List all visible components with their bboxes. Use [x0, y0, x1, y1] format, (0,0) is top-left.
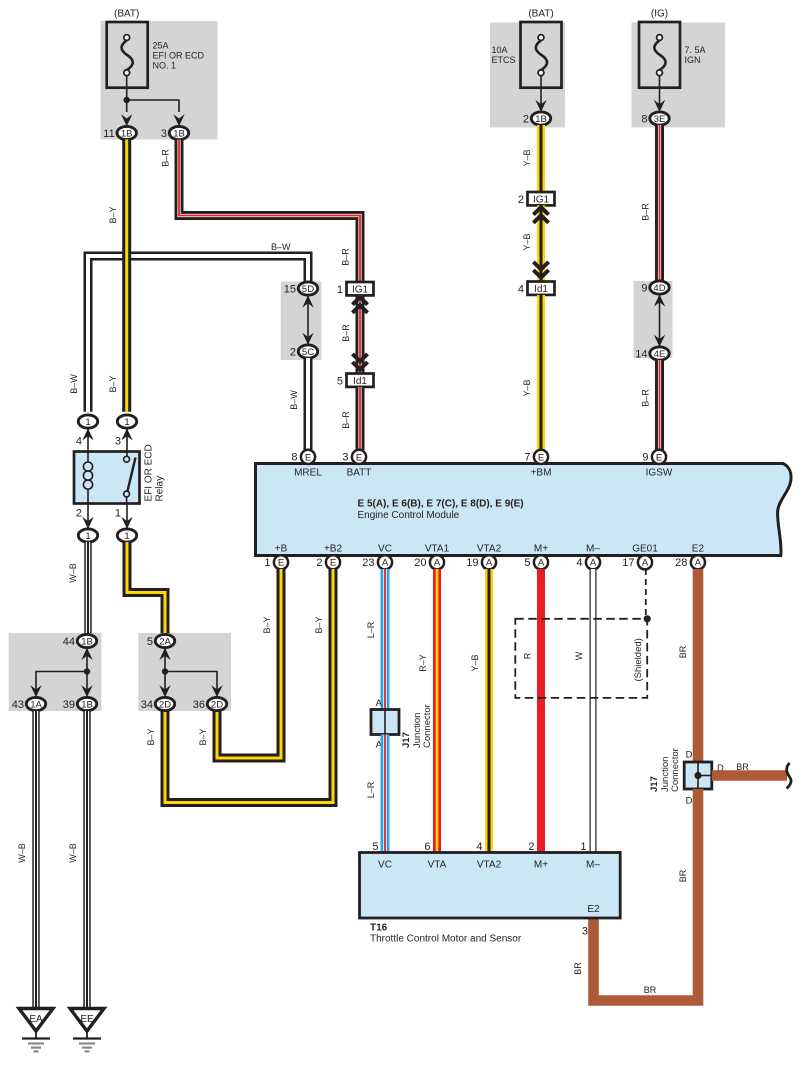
svg-text:A: A: [434, 558, 441, 569]
connector 9 4D: [650, 281, 669, 294]
svg-text:W–B: W–B: [17, 843, 27, 863]
fuse 25A EFI OR ECD NO.1: [107, 22, 148, 88]
svg-text:NO. 1: NO. 1: [153, 60, 177, 70]
wire B-Y +B2 to 34 2D: [165, 569, 333, 803]
svg-text:D: D: [686, 750, 693, 761]
arrow into connector 3 1B: [173, 114, 184, 126]
junction dot: [124, 97, 130, 103]
branch wires: [36, 672, 87, 691]
svg-text:4: 4: [476, 841, 482, 853]
svg-text:Y–B: Y–B: [522, 233, 532, 250]
svg-text:1B: 1B: [81, 636, 93, 647]
svg-text:VTA: VTA: [428, 860, 447, 871]
svg-text:2: 2: [518, 194, 524, 206]
svg-text:+BM: +BM: [531, 468, 552, 479]
svg-text:W: W: [574, 651, 584, 660]
svg-text:39: 39: [63, 699, 75, 711]
svg-text:W–B: W–B: [68, 563, 78, 583]
relay bottom pins: [87, 504, 89, 529]
svg-text:1B: 1B: [535, 114, 547, 125]
connector 43 1A: [26, 697, 45, 710]
svg-text:5: 5: [337, 376, 343, 388]
shield dashed box: [515, 619, 647, 698]
chevrons down above Id1: [352, 354, 367, 370]
svg-text:36: 36: [193, 699, 205, 711]
svg-text:E 5(A), E 6(B), E 7(C), E 8(D): E 5(A), E 6(B), E 7(C), E 8(D), E 9(E): [358, 499, 524, 510]
wire L-R VC lower: [381, 735, 390, 853]
wire R M+: [537, 569, 545, 853]
svg-text:Id1: Id1: [353, 376, 367, 387]
svg-text:B–W: B–W: [271, 242, 291, 252]
svg-text:A: A: [382, 558, 389, 569]
svg-text:B–Y: B–Y: [108, 206, 118, 223]
connector 14 4E: [650, 347, 669, 360]
arrow into connector 11 1B: [121, 114, 132, 126]
arrow up into 5 2A: [164, 647, 166, 672]
svg-text:A: A: [486, 558, 493, 569]
connector 1 (relay pin 4): [78, 415, 97, 428]
ECM pin IGSW: [652, 450, 666, 464]
svg-text:B–Y: B–Y: [108, 375, 118, 392]
svg-text:R–Y: R–Y: [418, 654, 428, 672]
svg-text:B–W: B–W: [289, 390, 299, 410]
wire B-R 4E to IGSW: [655, 360, 664, 450]
wire W-B 39 1B to ground EE: [83, 711, 90, 1009]
svg-text:17: 17: [622, 557, 634, 569]
pass-through line 4D-4E: [659, 294, 661, 347]
chevrons down above Id1 (ETCS): [533, 262, 548, 278]
svg-text:44: 44: [63, 636, 75, 648]
svg-text:BR: BR: [573, 962, 583, 975]
svg-text:E: E: [305, 452, 311, 463]
svg-text:Y–B: Y–B: [522, 379, 532, 396]
arrow into 36 2D: [211, 685, 222, 697]
arrow into 34 2D: [159, 685, 170, 697]
wire Y-B VTA2: [485, 569, 493, 853]
fuse 10A ETCS: [521, 22, 562, 88]
wire Y-B Id1 to +BM: [537, 295, 545, 450]
gray panel 5D/5C: [281, 282, 322, 361]
svg-text:4: 4: [576, 557, 582, 569]
connector 39 1B: [77, 697, 96, 710]
svg-text:1: 1: [85, 417, 90, 428]
svg-text:1: 1: [580, 841, 586, 853]
chevrons up below IG1 (ETCS): [533, 207, 548, 223]
svg-text:E: E: [538, 452, 544, 463]
svg-text:7: 7: [524, 452, 530, 464]
fuse panel (BAT) ETCS: [490, 23, 565, 128]
svg-text:Relay: Relay: [155, 476, 166, 502]
svg-text:E2: E2: [692, 544, 705, 555]
svg-text:1: 1: [337, 284, 343, 296]
arrow into connector 2 1B: [535, 100, 546, 112]
svg-text:R: R: [523, 652, 533, 659]
connector 8 3E: [650, 112, 669, 125]
svg-text:+B: +B: [275, 544, 288, 555]
wire L-R VC upper: [381, 569, 390, 710]
svg-text:23: 23: [362, 557, 374, 569]
svg-text:9: 9: [641, 283, 647, 295]
wire W-B 43 1A to ground EA: [32, 711, 39, 1009]
svg-text:2D: 2D: [211, 699, 223, 710]
svg-text:Y–B: Y–B: [470, 654, 480, 671]
branch wires 2: [165, 672, 217, 691]
svg-text:E: E: [278, 558, 284, 569]
svg-text:1: 1: [85, 531, 90, 542]
wire B-Y from 11 1B down to relay pin 3 connector: [122, 140, 131, 412]
wire BR E2 upper: [693, 569, 704, 762]
svg-text:14: 14: [635, 349, 647, 361]
arrow into relay pin1 connector: [121, 517, 132, 529]
svg-text:8: 8: [641, 114, 647, 126]
svg-text:B–Y: B–Y: [314, 616, 324, 633]
svg-text:A: A: [590, 558, 597, 569]
svg-text:B–R: B–R: [341, 248, 351, 266]
connector 11 1B: [117, 126, 136, 139]
wire W-B relay pin2 to 44 1B: [84, 542, 91, 634]
ground EE: [70, 1009, 104, 1032]
svg-text:VC: VC: [378, 544, 392, 555]
connector 1 (relay pin 3): [117, 415, 136, 428]
relay EFI OR ECD Relay box: [74, 452, 140, 504]
svg-text:E: E: [656, 452, 662, 463]
wire fuse to connector: [540, 76, 542, 106]
connector 1 (relay pin 1): [117, 529, 136, 542]
svg-text:B–R: B–R: [341, 324, 351, 342]
svg-text:2: 2: [290, 347, 296, 359]
arrow into relay pin2 connector: [82, 517, 93, 529]
svg-text:M–: M–: [586, 860, 600, 871]
svg-text:Id1: Id1: [534, 284, 548, 295]
wire fuse to junction: [126, 76, 128, 101]
svg-text:E2: E2: [587, 904, 600, 915]
svg-text:A: A: [538, 558, 545, 569]
svg-text:6: 6: [424, 841, 430, 853]
svg-text:B–W: B–W: [69, 374, 79, 394]
svg-text:GE01: GE01: [632, 544, 658, 555]
svg-text:M–: M–: [586, 544, 600, 555]
svg-text:EFI OR ECD: EFI OR ECD: [153, 51, 205, 61]
svg-text:9: 9: [642, 452, 648, 464]
svg-text:B–Y: B–Y: [146, 728, 156, 745]
svg-text:L–R: L–R: [366, 621, 376, 638]
svg-text:1B: 1B: [121, 128, 133, 139]
arrow into relay pin4 connector: [82, 428, 93, 440]
svg-text:J17: J17: [649, 776, 660, 792]
connector 5 Id1: [347, 374, 374, 387]
svg-text:L–R: L–R: [366, 781, 376, 798]
svg-text:Connector: Connector: [422, 704, 433, 748]
svg-text:1A: 1A: [30, 699, 42, 710]
wire B-R Id1 to BATT: [356, 387, 365, 450]
svg-text:MREL: MREL: [294, 468, 322, 479]
T16 Throttle Control Motor and Sensor box: [360, 853, 621, 919]
svg-text:(BAT): (BAT): [114, 9, 139, 20]
svg-text:A: A: [642, 558, 649, 569]
svg-text:2: 2: [76, 508, 82, 520]
svg-text:4D: 4D: [653, 283, 665, 294]
wire Y-B 1B to IG1: [537, 125, 545, 192]
wire R-Y VTA1: [433, 569, 441, 853]
svg-text:B–Y: B–Y: [198, 728, 208, 745]
arrow up into 5D: [302, 295, 313, 307]
svg-text:EFI OR ECD: EFI OR ECD: [144, 444, 155, 501]
arrow into 39 1B: [81, 685, 92, 697]
svg-text:VTA2: VTA2: [477, 860, 502, 871]
ECM Engine Control Module box: [256, 464, 792, 556]
svg-text:BR: BR: [736, 762, 749, 772]
fuse panel (IG) IGN: [632, 23, 726, 128]
connector 2 1B: [531, 112, 550, 125]
svg-text:3E: 3E: [654, 114, 666, 125]
svg-text:2D: 2D: [159, 699, 171, 710]
svg-text:(BAT): (BAT): [528, 9, 553, 20]
wire GE01 shield drain dashed: [645, 569, 647, 619]
svg-text:1: 1: [115, 508, 121, 520]
line pin4 to relay: [87, 428, 89, 452]
svg-text:A: A: [695, 558, 702, 569]
svg-text:7. 5A: 7. 5A: [685, 45, 706, 55]
arrow up into 44 1B: [86, 647, 88, 672]
wire B-R 3E to 4D: [655, 125, 664, 282]
svg-text:EA: EA: [29, 1014, 43, 1025]
wire fuse to connector: [659, 76, 661, 106]
svg-text:A: A: [376, 698, 383, 709]
connector 36 2D: [207, 697, 226, 710]
arrow into connector 8 3E: [654, 100, 665, 112]
wire W M-: [590, 569, 597, 853]
svg-text:11: 11: [103, 128, 114, 140]
svg-text:+B2: +B2: [324, 544, 343, 555]
svg-text:VTA1: VTA1: [425, 544, 450, 555]
svg-text:3: 3: [582, 926, 588, 938]
svg-text:19: 19: [466, 557, 478, 569]
svg-text:B–R: B–R: [641, 203, 651, 221]
svg-text:IG1: IG1: [533, 195, 550, 206]
wire B-Y relay pin1 to 5 2A: [127, 542, 165, 634]
ECM pin +BM: [534, 450, 548, 464]
svg-text:IGN: IGN: [685, 55, 701, 65]
svg-text:1B: 1B: [173, 128, 185, 139]
svg-text:ETCS: ETCS: [492, 55, 516, 65]
svg-text:(IG): (IG): [651, 9, 668, 20]
junction connector J17 (VC): [371, 710, 399, 735]
svg-text:5D: 5D: [302, 284, 314, 295]
svg-text:2: 2: [316, 557, 322, 569]
svg-text:15: 15: [284, 284, 296, 296]
svg-text:VTA2: VTA2: [477, 544, 502, 555]
svg-text:3: 3: [342, 452, 348, 464]
svg-text:2: 2: [528, 841, 534, 853]
svg-text:1: 1: [124, 531, 129, 542]
junction dot: [84, 668, 90, 674]
wire B-Y +B to 36 2D: [217, 569, 281, 758]
pass-through line 5D-5C: [307, 295, 309, 345]
connector 15 5D: [298, 282, 317, 295]
svg-text:28: 28: [675, 557, 687, 569]
svg-text:W–B: W–B: [68, 843, 78, 863]
svg-text:E: E: [330, 558, 336, 569]
svg-text:8: 8: [291, 452, 297, 464]
connector 2 IG1: [528, 192, 555, 205]
svg-text:5: 5: [524, 557, 530, 569]
svg-text:Throttle Control Motor and Sen: Throttle Control Motor and Sensor: [370, 934, 522, 945]
svg-text:5C: 5C: [302, 347, 314, 358]
svg-text:BR: BR: [644, 985, 657, 995]
svg-text:20: 20: [414, 557, 426, 569]
svg-text:B–R: B–R: [161, 149, 171, 167]
junction connector J17 (E2): [684, 762, 712, 789]
arrow up into 4D: [654, 294, 665, 306]
svg-text:D: D: [686, 796, 693, 807]
gray panel 1A/1B junction: [9, 633, 102, 711]
fuse panel (BAT) EFI OR ECD: [101, 21, 218, 140]
wire B-W relay pin4 connector up, across, down to 15 5D: [88, 256, 308, 412]
connector 44 1B: [77, 634, 96, 647]
arrow into 43 1A: [30, 685, 41, 697]
svg-text:5: 5: [372, 841, 378, 853]
junction dot 2: [162, 668, 168, 674]
svg-text:1: 1: [124, 417, 129, 428]
arrow into relay pin3 connector: [121, 428, 132, 440]
svg-text:1: 1: [264, 557, 270, 569]
gray panel 4D/4E: [634, 281, 673, 358]
svg-text:3: 3: [161, 128, 167, 140]
arrow down into 5C: [302, 333, 313, 345]
svg-text:4: 4: [76, 436, 82, 448]
svg-text:4E: 4E: [654, 349, 666, 360]
svg-text:5: 5: [147, 636, 153, 648]
svg-text:J17: J17: [401, 732, 412, 748]
connector 1 (relay pin 2): [78, 529, 97, 542]
svg-text:E: E: [356, 452, 362, 463]
svg-text:Engine Control Module: Engine Control Module: [358, 510, 460, 521]
svg-text:25A: 25A: [153, 41, 169, 51]
svg-text:10A: 10A: [492, 45, 508, 55]
svg-text:Connector: Connector: [670, 748, 681, 792]
wire B-W 5C to MREL: [304, 358, 313, 450]
connector 2 5C: [298, 345, 317, 358]
fuse 7.5A IGN: [639, 22, 680, 88]
svg-text:34: 34: [141, 699, 153, 711]
svg-text:(Shielded): (Shielded): [633, 638, 644, 681]
svg-text:VC: VC: [378, 860, 392, 871]
svg-text:IGSW: IGSW: [646, 468, 673, 479]
svg-text:BR: BR: [678, 869, 688, 882]
connector 4 Id1: [528, 282, 555, 295]
wire BR branch right: [712, 770, 787, 781]
svg-text:Y–B: Y–B: [522, 149, 532, 166]
connector 1 IG1: [347, 282, 374, 295]
svg-text:EE: EE: [80, 1014, 94, 1025]
wire branch to pin 3: [127, 100, 179, 112]
svg-text:BATT: BATT: [347, 468, 372, 479]
gray panel 2A/2D junction: [138, 633, 231, 711]
relay switch: [126, 452, 128, 457]
shield junction dot: [644, 615, 651, 622]
svg-text:2: 2: [523, 114, 529, 126]
wire Y-B IG1 to Id1: [537, 205, 545, 281]
svg-text:3: 3: [115, 436, 121, 448]
svg-text:IG1: IG1: [352, 285, 369, 296]
ground EA: [19, 1009, 53, 1032]
svg-text:1B: 1B: [81, 699, 93, 710]
wire B-R IG1 to Id1: [356, 295, 365, 373]
svg-text:BR: BR: [678, 645, 688, 658]
svg-text:M+: M+: [534, 544, 548, 555]
arrow down into 4E: [654, 335, 665, 347]
svg-text:M+: M+: [534, 860, 548, 871]
chevrons up below IG1: [352, 297, 367, 313]
connector 34 2D: [155, 697, 174, 710]
connector 5 2A: [155, 634, 174, 647]
svg-text:43: 43: [12, 699, 24, 711]
svg-text:2A: 2A: [159, 636, 171, 647]
svg-text:B–R: B–R: [641, 389, 651, 407]
ECM pin BATT: [352, 450, 366, 464]
wire B-R from 3 1B to connector 1 IG1: [179, 140, 360, 283]
wire BR lower to T16 E2: [594, 789, 699, 1001]
svg-text:T16: T16: [370, 923, 388, 934]
relay coil: [87, 452, 89, 463]
svg-text:B–R: B–R: [341, 411, 351, 429]
ECM pin MREL: [301, 450, 315, 464]
svg-text:B–Y: B–Y: [262, 616, 272, 633]
wire break squiggle: [787, 763, 792, 789]
svg-text:4: 4: [518, 284, 524, 296]
connector 3 1B: [169, 126, 188, 139]
